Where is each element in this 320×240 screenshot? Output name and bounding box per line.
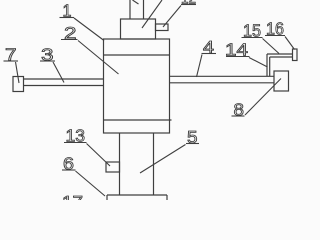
svg-text:7: 7 xyxy=(5,45,17,65)
svg-text:16: 16 xyxy=(266,19,284,39)
svg-text:4: 4 xyxy=(203,37,214,57)
svg-text:5: 5 xyxy=(187,127,198,147)
svg-text:15: 15 xyxy=(243,21,261,41)
svg-text:14: 14 xyxy=(225,40,248,60)
svg-text:13: 13 xyxy=(66,126,86,146)
svg-text:3: 3 xyxy=(41,45,54,65)
svg-text:1: 1 xyxy=(63,1,72,21)
svg-text:6: 6 xyxy=(63,154,74,174)
svg-text:12: 12 xyxy=(181,0,196,8)
svg-text:17: 17 xyxy=(62,192,83,200)
svg-text:2: 2 xyxy=(64,23,77,43)
svg-text:8: 8 xyxy=(234,100,245,120)
